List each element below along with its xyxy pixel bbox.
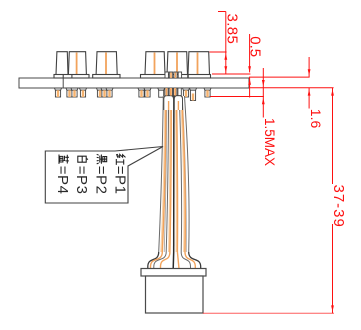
svg-text:=P1: =P1	[111, 166, 128, 195]
svg-text:37-39: 37-39	[330, 185, 347, 228]
svg-text:=P3: =P3	[73, 166, 90, 195]
svg-text:1.6: 1.6	[308, 109, 324, 129]
svg-text:1.5MAX: 1.5MAX	[262, 118, 277, 166]
svg-text:=P4: =P4	[54, 166, 71, 195]
svg-text:=P2: =P2	[92, 166, 109, 195]
svg-text:3.85: 3.85	[224, 14, 241, 45]
svg-text:0.5: 0.5	[247, 36, 264, 57]
